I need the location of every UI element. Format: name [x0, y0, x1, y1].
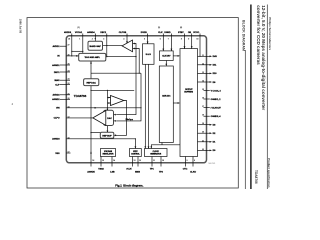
svg-text:TDA8766: TDA8766 — [254, 170, 258, 184]
svg-text:CLK DRV: CLK DRV — [162, 56, 171, 58]
svg-text:DEC2: DEC2 — [100, 32, 106, 34]
svg-text:8: 8 — [194, 160, 195, 162]
svg-text:AGND1: AGND1 — [52, 64, 60, 67]
wire: comparator output to pin — [66, 117, 93, 119]
top pin numbers — [68, 38, 198, 41]
arrows into U3 left — [108, 97, 110, 99]
wire: reference bus down — [116, 73, 141, 121]
right pin numbers — [202, 55, 204, 151]
arrow into T/H input — [76, 55, 79, 57]
svg-text:AVDD1: AVDD1 — [52, 45, 60, 48]
svg-text:S & H: S & H — [146, 54, 152, 56]
arrow into U2 top — [107, 109, 109, 111]
wire: U2 to ref buf — [106, 126, 108, 133]
wire: clock to ADC — [165, 61, 167, 67]
svg-text:OGND1, 2: OGND1, 2 — [211, 99, 222, 101]
junction dots — [71, 38, 200, 139]
wire: VSS pin stub — [66, 152, 70, 154]
wire: S&H bottom drop 1 — [144, 64, 146, 148]
svg-text:f CLKOUT: f CLKOUT — [211, 107, 222, 109]
svg-text:16: 16 — [92, 160, 94, 162]
op-amp U3 — [111, 96, 124, 106]
svg-text:MGC581: MGC581 — [209, 163, 216, 165]
svg-text:22: 22 — [68, 83, 70, 85]
left pin labels — [52, 45, 60, 155]
svg-text:14: 14 — [202, 80, 204, 83]
wire W1: T/H output bus — [106, 56, 136, 58]
arrow clock driver to output buffers — [178, 55, 180, 57]
wire: bottom bus — [151, 145, 180, 149]
right pin stubs D0-D11 and supplies — [198, 65, 210, 151]
arrow into U1 top — [126, 41, 128, 43]
svg-text:15: 15 — [102, 160, 104, 162]
reference buffer block — [100, 132, 114, 138]
clock generator block — [145, 149, 168, 157]
svg-text:28: 28 — [68, 39, 70, 41]
svg-text:BUFFERS: BUFFERS — [184, 92, 193, 94]
svg-text:24: 24 — [68, 70, 70, 73]
svg-text:REGULATOR: REGULATOR — [103, 152, 115, 155]
wire: U3 input stub 2 — [107, 102, 110, 104]
svg-text:CLKO: CLKO — [190, 172, 196, 174]
svg-text:BLOCK DIAGRAM: BLOCK DIAGRAM — [242, 20, 246, 51]
svg-text:REF DAC: REF DAC — [87, 81, 97, 84]
svg-text:LSB: LSB — [110, 172, 115, 174]
wire: clock pin drop — [162, 34, 164, 51]
wire: clock pin 2 drop — [170, 34, 172, 51]
svg-text:Product specification: Product specification — [267, 158, 271, 188]
wire: OE pin drop — [191, 34, 193, 49]
figure frame — [27, 18, 238, 188]
wire: band gap output to amp U1 — [103, 45, 123, 47]
wire: U3 feed vertical — [106, 90, 108, 110]
top pin labels — [64, 31, 200, 34]
header thin rule — [266, 5, 268, 190]
svg-text:23: 23 — [68, 79, 70, 81]
svg-text:9: 9 — [187, 160, 188, 162]
svg-text:26: 26 — [68, 54, 70, 56]
svg-text:STBY: STBY — [178, 32, 184, 34]
voltage regulator block — [101, 149, 116, 157]
svg-text:OTC: OTC — [183, 168, 188, 170]
svg-text:SAR ADC: SAR ADC — [162, 94, 171, 97]
output buffers block — [180, 49, 198, 157]
svg-text:T/H-S AND AMPL: T/H-S AND AMPL — [84, 56, 100, 59]
bottom pin numbers — [92, 159, 195, 162]
svg-text:1996 Jul 05: 1996 Jul 05 — [18, 19, 22, 34]
left pin stubs AVDD1/AGND1/DEC1/BIAS/CLP/AVDD2/AGND2 — [60, 46, 70, 99]
header thick rule — [250, 5, 252, 190]
wire: U1 input bus 1 — [116, 44, 136, 115]
wire: supply link — [72, 50, 83, 52]
svg-text:13: 13 — [134, 160, 136, 162]
svg-text:CLPO: CLPO — [54, 118, 60, 120]
svg-text:VIN: VIN — [56, 108, 60, 110]
svg-text:DVDD: DVDD — [141, 32, 147, 34]
svg-text:DGND: DGND — [164, 32, 171, 34]
svg-text:10: 10 — [162, 160, 164, 162]
wire: top pin 1 drop — [82, 34, 84, 54]
wire: G riser — [134, 139, 136, 149]
svg-text:17: 17 — [202, 106, 204, 108]
svg-text:DEC1: DEC1 — [54, 72, 60, 74]
arrow ADC to output buffers — [178, 102, 180, 104]
wire: U1 input bus 2 — [134, 49, 139, 74]
svg-text:VCCA1: VCCA1 — [75, 31, 83, 34]
arrowheads — [76, 41, 192, 153]
wire: ADC bottom riser — [161, 143, 163, 145]
arrows U1 inputs — [133, 43, 135, 45]
svg-text:Philips Semiconductors: Philips Semiconductors — [268, 17, 272, 50]
svg-text:12: 12 — [139, 160, 141, 162]
svg-text:13: 13 — [202, 72, 204, 74]
wire: dac out branch — [91, 89, 134, 91]
svg-text:OGND3, 4: OGND3, 4 — [211, 115, 222, 118]
svg-text:8: 8 — [181, 39, 182, 41]
svg-text:20: 20 — [68, 98, 70, 100]
wire: pin drop to S&H — [147, 34, 149, 44]
svg-text:1: 1 — [79, 39, 80, 41]
svg-text:V CCO1, 2: V CCO1, 2 — [211, 90, 222, 92]
svg-text:21: 21 — [202, 140, 204, 142]
svg-text:19: 19 — [68, 106, 70, 108]
arrow into H top — [150, 146, 152, 148]
comparator U2 — [93, 110, 114, 125]
left pin numbers — [68, 45, 70, 154]
IC outline TDA8766 — [66, 36, 206, 163]
S&H block — [143, 44, 155, 65]
svg-text:TDA8766: TDA8766 — [74, 94, 87, 98]
svg-text:25: 25 — [68, 64, 70, 66]
right output arrows — [210, 55, 212, 151]
right pin labels — [211, 55, 222, 152]
arrow up on sense wire — [90, 151, 92, 153]
svg-text:DAV: DAV — [213, 55, 218, 58]
svg-text:15: 15 — [202, 89, 204, 91]
svg-text:18: 18 — [202, 115, 204, 117]
svg-text:18: 18 — [68, 137, 70, 139]
arrows into output buffers top — [184, 46, 186, 48]
svg-text:7: 7 — [168, 39, 169, 41]
svg-text:f CLK: f CLK — [126, 168, 132, 170]
arrow into G top — [135, 146, 137, 148]
svg-text:AVDD2: AVDD2 — [52, 94, 60, 97]
svg-text:VSS: VSS — [55, 153, 60, 155]
arrow into ref buf right — [114, 134, 116, 136]
svg-text:REF BUF: REF BUF — [102, 136, 112, 138]
svg-text:5: 5 — [144, 39, 145, 41]
DAC block — [84, 79, 99, 86]
wire: clock driver to output — [173, 55, 178, 57]
svg-text:10: 10 — [196, 39, 198, 41]
svg-text:BIAS: BIAS — [54, 79, 60, 82]
wire: ADC to output stage — [173, 102, 178, 104]
svg-text:17: 17 — [68, 152, 70, 154]
svg-text:VSS2: VSS2 — [98, 168, 104, 170]
arrow into clock driver — [162, 49, 164, 51]
svg-text:CLP: CLP — [55, 84, 60, 86]
svg-text:AGND2: AGND2 — [52, 98, 60, 101]
svg-text:11: 11 — [202, 55, 204, 57]
wire: DEC pin drop — [106, 34, 108, 57]
svg-text:12: 12 — [68, 116, 70, 118]
svg-text:9: 9 — [188, 39, 189, 41]
op-amp U1 — [122, 40, 133, 52]
wire: output pin stub DAV — [198, 55, 210, 57]
svg-text:4: 4 — [123, 38, 124, 41]
wire: U3 input stub 1 — [107, 97, 110, 99]
svg-text:Fig.1 Block diagram.: Fig.1 Block diagram. — [115, 183, 143, 187]
heading underline — [244, 50, 246, 189]
svg-text:19: 19 — [202, 123, 204, 125]
wire: U3 apex to ref buf — [116, 101, 127, 136]
svg-text:16: 16 — [202, 98, 204, 100]
svg-text:GENERATOR: GENERATOR — [150, 152, 162, 155]
svg-text:AGND3: AGND3 — [52, 138, 60, 141]
svg-text:DAC: DAC — [107, 117, 112, 120]
svg-text:BAND GAP: BAND GAP — [90, 45, 102, 48]
wire: DAC reference vertical — [90, 61, 92, 79]
wire: IN pin to T/H — [66, 55, 78, 57]
wire: S&H bottom drop 2 — [148, 64, 150, 148]
band gap block — [88, 41, 103, 50]
arrow into ADC top — [165, 64, 167, 66]
svg-text:14: 14 — [113, 159, 115, 162]
svg-text:22: 22 — [202, 149, 204, 151]
wire: clamp pin drop to U1 — [126, 34, 128, 44]
wire: CLK out pin drop — [199, 34, 201, 57]
svg-text:AVDD3: AVDD3 — [64, 31, 72, 34]
wire: top pin 28 drop — [71, 34, 73, 56]
clock driver block — [160, 51, 174, 61]
wire: OTC pin drop — [184, 34, 186, 49]
svg-text:20: 20 — [202, 132, 204, 134]
arrow into ref buf top — [107, 131, 109, 133]
wire: ref buf left feed — [91, 132, 100, 134]
bottom pin stubs — [101, 157, 193, 167]
svg-text:AGND5: AGND5 — [87, 171, 95, 174]
bottom pin labels — [87, 168, 196, 173]
svg-text:2Vref p-p: 2Vref p-p — [126, 119, 134, 121]
svg-text:CLK: CLK — [158, 32, 163, 34]
wire: reference branch right — [91, 72, 141, 74]
svg-text:VCCO: VCCO — [193, 32, 199, 34]
arrow into S&H top — [147, 42, 149, 44]
svg-text:27: 27 — [68, 45, 70, 47]
wire: AGND rail — [66, 138, 135, 140]
arrow on VIN wire — [95, 107, 97, 109]
svg-text:2: 2 — [92, 39, 93, 41]
standby control block — [130, 149, 142, 157]
wire: top pin 2 drop to band gap — [94, 34, 96, 42]
T/H amplifier block — [79, 53, 106, 61]
svg-text:21: 21 — [68, 93, 70, 95]
svg-text:6: 6 — [160, 39, 161, 41]
svg-text:3: 3 — [103, 39, 104, 41]
arrows into U2 right — [114, 114, 116, 116]
svg-text:CLPOB: CLPOB — [119, 32, 127, 34]
arrow up into T/H bottom — [90, 61, 92, 63]
svg-text:CONTROL: CONTROL — [131, 153, 140, 155]
svg-text:converter for CCD cameras: converter for CCD cameras — [256, 5, 261, 65]
wire: VIN pin run — [66, 107, 141, 109]
svg-text:11: 11 — [153, 160, 155, 162]
ADC core block — [159, 66, 173, 143]
svg-text:MSB: MSB — [135, 172, 140, 174]
svg-text:AGND4: AGND4 — [87, 31, 95, 34]
svg-text:12: 12 — [202, 63, 204, 65]
